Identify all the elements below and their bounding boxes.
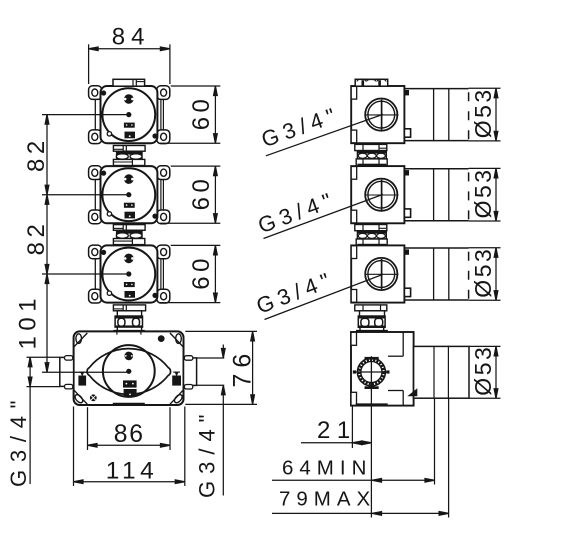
valve box 1 side top nut (355, 79, 388, 86)
svg-text:60: 60 (188, 175, 215, 211)
dim 21 (301, 391, 371, 518)
leader G3/4 side box1 (266, 114, 383, 156)
valve box 1 side (351, 86, 468, 143)
dim diam53 box1 (469, 88, 501, 141)
body (351, 332, 414, 406)
dim diam53 mixer (469, 346, 500, 398)
svg-text:79MAX: 79MAX (279, 488, 376, 511)
center dot (126, 369, 131, 374)
bottom outlet boss (356, 403, 388, 406)
mixer box front (60, 331, 197, 405)
dim diam53 box3 (469, 248, 501, 301)
dim 60 box3 (160, 245, 220, 302)
dim 76 (185, 331, 257, 404)
valve box 1 top fitting (113, 79, 145, 86)
side connector box1-box2 (355, 144, 387, 166)
corner chamfer bottom-right (170, 390, 183, 404)
dim 84 (89, 44, 170, 84)
threaded port ring (357, 358, 385, 386)
corner slot top-right (176, 334, 182, 344)
mixer box side (351, 332, 469, 406)
block 2 (124, 389, 137, 397)
dim 60 box1 (160, 86, 220, 143)
side nubs (353, 370, 356, 373)
svg-text:101: 101 (15, 293, 42, 350)
internal step bottom-right (402, 391, 404, 406)
callout G3/4 left (27, 357, 60, 484)
svg-text:Ø53: Ø53 (470, 247, 496, 298)
plaster depth cylinder (414, 346, 469, 398)
clamp screw right (172, 376, 181, 386)
corner screw bottom-left (90, 394, 97, 401)
port crosshair (353, 371, 388, 373)
thermostat circle (103, 345, 155, 397)
connector box1-box2 (113, 146, 145, 166)
valve box 1 front (89, 86, 170, 144)
svg-text:64MIN: 64MIN (282, 457, 372, 480)
svg-text:Ø53: Ø53 (470, 87, 496, 138)
dim diam53 box2 (469, 168, 501, 221)
svg-text:114: 114 (106, 457, 159, 484)
block 1 (123, 380, 137, 387)
retainer wedge (407, 388, 417, 396)
left pipe port (60, 357, 74, 386)
valve box 3 front (89, 245, 170, 303)
dim 86 (88, 407, 171, 450)
clamp screw left (78, 376, 86, 386)
chain dim 82/82/101 (42, 115, 129, 373)
corner screw top-right (158, 335, 165, 342)
valve box 2 front (89, 166, 170, 224)
dim 114 (74, 407, 185, 487)
svg-text:60: 60 (188, 95, 215, 131)
internal step top-right (402, 332, 404, 356)
corner slot bottom-right (173, 393, 184, 404)
top inlet ticks (116, 332, 118, 335)
svg-text:60: 60 (188, 254, 215, 290)
corner chamfer bottom-left (74, 390, 87, 404)
corner chamfer top-right (170, 333, 183, 347)
corner slot bottom-left (74, 393, 85, 404)
callout G3/4 right (197, 345, 226, 496)
svg-text:Ø53: Ø53 (470, 167, 496, 218)
svg-text:21: 21 (317, 417, 357, 444)
bottom outlet boss (113, 403, 145, 406)
svg-text:82: 82 (23, 220, 50, 256)
corner slot top-left (76, 334, 82, 344)
wall plate tabs (351, 332, 357, 345)
svg-text:84: 84 (112, 23, 151, 50)
leader G3/4 side box3 (265, 274, 384, 319)
body (74, 331, 184, 405)
side connector box2-box3 (355, 225, 387, 247)
svg-text:86: 86 (114, 421, 145, 448)
valve box 3 side (351, 245, 468, 302)
knob (125, 352, 134, 361)
corner chamfer top-left (74, 333, 87, 347)
svg-text:82: 82 (23, 136, 50, 172)
leader G3/4 side box2 (264, 194, 384, 238)
right pipe port (184, 358, 197, 386)
dim 64MIN (272, 398, 435, 484)
lens shape (87, 349, 171, 395)
svg-text:76: 76 (229, 348, 257, 388)
connector box2-box3 (113, 225, 145, 245)
side connector box3-mixer (355, 305, 388, 332)
dim 60 box2 (160, 166, 220, 223)
valve box 2 side (351, 166, 468, 223)
connector box3-mixer (113, 305, 145, 332)
svg-text:Ø53: Ø53 (470, 345, 496, 396)
port flats (365, 357, 379, 360)
dim 79MAX (272, 398, 449, 517)
